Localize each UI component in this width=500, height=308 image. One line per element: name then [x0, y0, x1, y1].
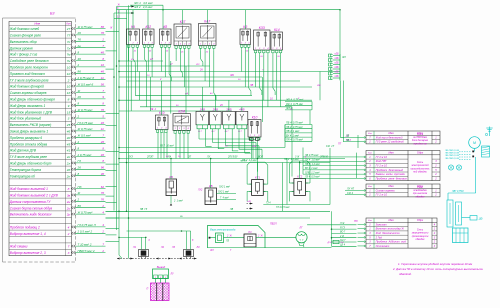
svg-text:Ж 0,75 мм²: Ж 0,75 мм²: [77, 108, 94, 112]
svg-text:2 0,75 мм²: 2 0,75 мм²: [77, 153, 93, 157]
svg-text:п2Б: п2Б: [334, 72, 339, 74]
svg-text:8б: 8б: [101, 25, 105, 29]
box top feeds: [132, 10, 134, 29]
svg-text:п2Б: п2Б: [334, 58, 339, 60]
svg-text:Сигнал горелки обогрев: Сигнал горелки обогрев: [10, 91, 47, 95]
svg-text:10: 10: [101, 63, 105, 67]
svg-text:4б: 4б: [101, 70, 105, 74]
svg-text:ПВ2Л: ПВ2Л: [270, 223, 277, 226]
row-bus link: [106, 234, 117, 236]
row-bus link: [106, 151, 120, 153]
distribution wires: [119, 60, 163, 62]
svg-text:ПБ 4 1,2 мм²: ПБ 4 1,2 мм²: [305, 163, 320, 166]
svg-text:ДГ4: ДГ4: [327, 241, 333, 244]
svg-text:Л4: Л4: [196, 246, 201, 249]
svg-text:Кон: Кон: [66, 23, 71, 26]
svg-text:7л: 7л: [67, 46, 71, 50]
svg-text:7б: 7б: [101, 108, 105, 112]
svg-text:Завесы жиды Аустайн: Завесы жиды Аустайн: [376, 172, 406, 176]
svg-text:2ПУЗ/ЗУ: 2ПУЗ/ЗУ: [227, 155, 238, 158]
bus B: [116, 7, 118, 231]
svg-text:п2Б: п2Б: [334, 67, 339, 69]
row-bus link: [106, 170, 117, 172]
svg-text:Л1: Л1: [132, 246, 137, 249]
svg-text:ж7: ж7: [149, 58, 154, 61]
trunk y211: [106, 210, 331, 212]
svg-text:обводкой.: обводкой.: [399, 272, 412, 276]
svg-text:8: 8: [68, 98, 70, 102]
device boundary box БЗ: [3, 18, 76, 262]
svg-text:1: 1: [272, 48, 273, 50]
svg-text:ГУЗ реле 12 свободной: ГУЗ реле 12 свободной: [376, 140, 405, 144]
svg-text:6д: 6д: [101, 185, 105, 189]
table T2: [366, 151, 440, 181]
svg-text:ЛГ: ЛГ: [298, 226, 303, 230]
svg-text:Л Ж: Л Ж: [339, 223, 345, 225]
svg-text:ГЗ 0,75 мм²: ГЗ 0,75 мм²: [78, 121, 95, 125]
T2 collector: [302, 148, 304, 175]
svg-text:2б: 2б: [77, 166, 82, 170]
svg-text:Ж: Ж: [77, 89, 81, 93]
svg-text:2в: 2в: [77, 44, 82, 48]
svg-text:7б: 7б: [78, 38, 82, 42]
svg-text:ДФ: ДФ: [478, 218, 483, 221]
trunk wire 2: [119, 162, 330, 164]
svg-text:Вывод: Вывод: [157, 265, 166, 269]
svg-text:Сигнал фонаря реле: Сигнал фонаря реле: [10, 34, 41, 38]
svg-text:Жид блок удаленного с ДУВ: Жид блок удаленного с ДУВ: [9, 110, 53, 114]
svg-text:ПВ2ГЗ мм² 2: ПВ2ГЗ мм² 2: [78, 249, 95, 253]
svg-text:2: 2: [77, 114, 80, 118]
svg-text:8б: 8б: [78, 70, 82, 74]
svg-text:2 Гвд: 2 Гвд: [375, 235, 383, 239]
cyan connector hatch: [482, 146, 490, 157]
svg-text:Жид блок удаленный: Жид блок удаленный: [9, 117, 42, 121]
left bus 2: [128, 5, 130, 252]
svg-text:ГУ 2 ж 10: ГУ 2 ж 10: [376, 164, 388, 168]
trunk y247: [208, 246, 332, 248]
connector stack: [329, 54, 333, 57]
svg-text:Я ГЗ: Я ГЗ: [339, 227, 345, 229]
svg-text:ЖЗ: ЖЗ: [209, 250, 214, 252]
table header: [9, 22, 72, 256]
svg-text:8: 8: [68, 187, 70, 191]
svg-text:3: 3: [68, 117, 70, 121]
svg-text:4б: 4б: [67, 168, 71, 172]
relay collect wires: [198, 129, 200, 139]
svg-text:2 0,5 мм² 2: 2 0,5 мм² 2: [77, 230, 93, 234]
svg-text:ГВ 7 10 мм²: ГВ 7 10 мм²: [160, 144, 174, 147]
cyan riser: [475, 157, 477, 193]
table rows: [9, 31, 72, 33]
svg-text:ЛУ 4 1,0 мм²: ЛУ 4 1,0 мм²: [304, 158, 320, 161]
svg-text:ГУ 2 ж 10: ГУ 2 ж 10: [376, 155, 388, 159]
svg-text:ПВ ГЗ: ПВ ГЗ: [140, 209, 148, 211]
svg-text:ГУ 3 жиле глубокого реле: ГУ 3 жиле глубокого реле: [10, 78, 49, 82]
svg-text:2 Ж: 2 Ж: [226, 236, 233, 238]
svg-text:ГЗ 0,75 мм² Л: ГЗ 0,75 мм² Л: [78, 223, 96, 227]
svg-text:Прожект жид безопасн: Прожект жид безопасн: [10, 72, 45, 76]
svg-text:2н: 2н: [66, 200, 71, 204]
svg-text:1: 1: [161, 42, 162, 44]
svg-text:2 1 мм²: 2 1 мм²: [173, 200, 183, 203]
row-bus link: [106, 240, 120, 242]
svg-text:Температура об: Температура об: [10, 174, 35, 178]
svg-text:Проблеск реле безопасн: Проблеск реле безопасн: [376, 176, 408, 180]
vert x358a: [357, 135, 359, 148]
svg-text:2л: 2л: [66, 162, 71, 166]
svg-text:ЛЗ 4 0,5 мм²: ЛЗ 4 0,5 мм²: [304, 176, 320, 179]
svg-text:НЕ 2: НЕ 2: [150, 108, 157, 111]
svg-text:ЖВ: ЖВ: [316, 85, 321, 87]
resistor ДГ4: [333, 240, 339, 243]
bus A: [113, 13, 115, 211]
svg-text:2РВ: 2РВ: [212, 107, 218, 111]
row-bus link: [106, 68, 115, 70]
svg-text:обводке: обводке: [416, 195, 426, 198]
trunk y218: [106, 217, 311, 219]
svg-text:10: 10: [67, 72, 71, 76]
cyan motor M: [469, 137, 481, 149]
svg-text:ЛВ: ЛВ: [229, 209, 234, 211]
svg-text:2о: 2о: [66, 206, 71, 210]
svg-text:Датчик сопротивления ГУ: Датчик сопротивления ГУ: [9, 200, 52, 204]
svg-text:7б: 7б: [101, 191, 105, 195]
svg-text:ЛВ: ЛВ: [249, 84, 254, 87]
svg-text:ЛВГ 0,75М: ЛВГ 0,75М: [451, 191, 463, 193]
svg-text:2р: 2р: [66, 213, 71, 217]
svg-text:Проблеск подающ 2: Проблеск подающ 2: [10, 226, 40, 230]
stack drop wires: [341, 81, 345, 138]
svg-text:К14: К14: [274, 28, 280, 32]
link T2: [356, 153, 358, 178]
wire d3d4: [257, 159, 259, 172]
svg-text:П: П: [147, 288, 149, 291]
svg-text:Ж: Ж: [77, 191, 81, 195]
svg-text:ЖЗ: ЖЗ: [341, 56, 346, 59]
svg-text:2 Ж: 2 Ж: [339, 236, 345, 238]
svg-text:ГЗ 4: ГЗ 4: [266, 201, 271, 204]
svg-text:ПЗ: ПЗ: [354, 219, 358, 223]
table T4: [366, 218, 437, 248]
wire drop x340: [339, 10, 341, 80]
bundle to T4: [331, 211, 333, 246]
svg-text:ВУ 4 1 мм²: ВУ 4 1 мм²: [305, 167, 318, 170]
svg-text:46: 46: [67, 130, 71, 134]
svg-text:3: 3: [68, 251, 70, 255]
svg-text:27: 27: [66, 27, 71, 31]
svg-text:Т 4 мм²: Т 4 мм²: [220, 196, 229, 199]
fuse Л2: [184, 250, 194, 257]
row-bus link: [106, 195, 115, 197]
svg-text:Жид боковых вызывной 2 с ДУВ: Жид боковых вызывной 2 с ДУВ: [9, 194, 59, 198]
svg-text:ЖЗ: ЖЗ: [195, 64, 200, 66]
vert x292: [291, 107, 293, 177]
svg-text:77: 77: [67, 34, 71, 38]
svg-text:4л: 4л: [101, 76, 105, 80]
svg-text:1: 1: [176, 43, 177, 45]
svg-text:Жид Дверь вызывать 1: Жид Дверь вызывать 1: [9, 104, 46, 108]
svg-text:Проблеск реле поворотн: Проблеск реле поворотн: [10, 66, 48, 70]
svg-text:Проблеск Айболит жид: Проблеск Айболит жид: [376, 240, 407, 244]
svg-text:ЛУ НТ: ЛУ НТ: [346, 188, 355, 191]
svg-text:2б: 2б: [77, 95, 82, 99]
row-bus link: [106, 112, 120, 114]
svg-text:1: 1: [128, 42, 129, 44]
cyan antenna: [489, 127, 491, 137]
svg-text:Проблеск стекла обдува: Проблеск стекла обдува: [10, 142, 48, 146]
svg-text:7н: 7н: [67, 59, 71, 63]
svg-text:2: 2: [77, 140, 80, 144]
svg-text:К2М: К2М: [178, 109, 185, 113]
svg-text:Проблеск разгрузки 6: Проблеск разгрузки 6: [10, 136, 43, 140]
svg-text:ЛУ: ЛУ: [206, 155, 211, 158]
svg-text:25: 25: [66, 123, 71, 127]
svg-text:41: 41: [67, 149, 71, 153]
bus top stubs: [117, 6, 135, 8]
svg-text:7к: 7к: [67, 40, 71, 44]
svg-text:Ж 0,75 мм²: Ж 0,75 мм²: [77, 210, 94, 214]
jog1: [119, 255, 122, 259]
svg-text:Зажиг Дверь вызывать 1: Зажиг Дверь вызывать 1: [10, 130, 49, 134]
svg-text:Отключат: Отключат: [376, 244, 390, 248]
svg-text:Сигнал борта скольж обдув: Сигнал борта скольж обдув: [10, 206, 53, 210]
svg-text:Т 10 мм² 2: Т 10 мм² 2: [78, 242, 92, 246]
deep drop wires: [130, 61, 132, 111]
svg-text:2: 2: [101, 204, 104, 208]
svg-text:Жид боковых огней: Жид боковых огней: [9, 27, 40, 31]
svg-text:2б: 2б: [199, 69, 203, 72]
svg-text:ЛУ2: ЛУ2: [197, 190, 203, 192]
svg-text:ОУ2 1 мм²: ОУ2 1 мм²: [218, 190, 229, 193]
svg-text:2 Ж: 2 Ж: [257, 236, 264, 238]
svg-text:1: 1: [241, 42, 242, 44]
row-bus link: [106, 186, 117, 188]
svg-text:2б: 2б: [100, 140, 105, 144]
svg-text:ВО Г: ВО Г: [340, 232, 346, 234]
svg-text:Обрк: Обрк: [417, 218, 424, 222]
svg-text:К10: К10: [252, 115, 258, 119]
svg-text:2. Датчик 50 в отметку 10 см.: 2. Датчик 50 в отметку 10 см. сеть литер…: [392, 267, 483, 271]
svg-text:Жид боковых фонарей: Жид боковых фонарей: [9, 85, 44, 89]
row-bus link: [106, 217, 120, 219]
svg-text:2: 2: [101, 230, 104, 234]
svg-text:Фара электропривода: Фара электропривода: [210, 229, 236, 232]
svg-text:Ж 0,5 мм² б: Ж 0,5 мм² б: [77, 82, 94, 86]
svg-text:ЛБ: ЛБ: [345, 135, 350, 138]
svg-text:2Б: 2Б: [179, 216, 183, 218]
svg-text:К82: К82: [145, 25, 151, 29]
svg-text:10: 10: [67, 85, 71, 89]
svg-text:2: 2: [101, 249, 104, 253]
svg-text:Имя: Имя: [388, 151, 394, 155]
svg-text:Вибропр включение 2, 3: Вибропр включение 2, 3: [10, 251, 46, 255]
svg-text:8б: 8б: [78, 204, 82, 208]
svg-text:Температура борта: Температура борта: [10, 168, 41, 172]
svg-text:ОЛБ 1,2 мм²: ОЛБ 1,2 мм²: [305, 171, 320, 174]
svg-text:ж4: ж4: [184, 93, 189, 96]
svg-text:2б: 2б: [77, 31, 82, 35]
svg-text:ПЗ: ПЗ: [78, 185, 82, 189]
svg-text:Включат жплогодар Ж: Включат жплогодар Ж: [376, 227, 405, 231]
wire y152 link: [119, 151, 250, 153]
svg-text:Зажигат: Зажигат: [376, 222, 388, 226]
svg-text:2: 2: [67, 78, 70, 82]
row-bus link: [106, 163, 120, 165]
svg-text:ЛЗ: ЛЗ: [225, 241, 230, 243]
svg-text:обводке: обводке: [416, 238, 426, 241]
wire ЖС1: [130, 4, 163, 6]
svg-text:К8: К8: [163, 25, 167, 29]
svg-text:1: 1: [157, 127, 158, 129]
svg-text:ЖБ: ЖБ: [229, 74, 234, 77]
row-bus link: [106, 228, 120, 230]
vert x262: [262, 77, 264, 122]
svg-text:Включатель обор: Включатель обор: [10, 40, 37, 44]
svg-text:4б: 4б: [101, 153, 105, 157]
svg-text:4: 4: [68, 226, 70, 230]
connector п2В marks: [247, 203, 253, 205]
svg-text:Л3: Л3: [171, 246, 176, 249]
svg-text:9: 9: [68, 104, 70, 108]
row-bus link: [106, 31, 120, 33]
left bus 1: [126, 10, 128, 212]
vert x287: [286, 159, 288, 205]
bus C: [118, 10, 120, 255]
svg-text:Датчик уровня: Датчик уровня: [9, 46, 33, 50]
svg-text:ЛВ: ЛВ: [345, 139, 350, 142]
svg-text:40: 40: [67, 136, 71, 140]
svg-text:5б: 5б: [101, 82, 105, 86]
svg-text:Жид боковых вызывной 1: Жид боковых вызывной 1: [9, 187, 48, 191]
svg-text:45: 45: [67, 142, 71, 146]
svg-text:Имя: Имя: [388, 218, 394, 222]
svg-text:п2Б: п2Б: [334, 54, 339, 56]
svg-text:3б: 3б: [101, 172, 105, 176]
svg-text:Жид кор в безопасной: Жид кор в безопасной: [375, 135, 403, 139]
svg-text:п2Б: п2Б: [334, 76, 339, 78]
svg-text:Жид ПЗТ: Жид ПЗТ: [375, 159, 387, 163]
left bus end: [128, 252, 130, 259]
svg-text:2ПЗП: 2ПЗП: [146, 155, 154, 158]
table row wires: [71, 27, 73, 29]
cyan bottom block: [453, 228, 469, 243]
svg-text:Л2: Л2: [160, 246, 165, 249]
row-bus link: [106, 210, 127, 212]
svg-text:М: М: [473, 141, 476, 145]
svg-text:Жид Дверь обгонного борт: Жид Дверь обгонного борт: [9, 162, 52, 166]
svg-text:СЖ 1Т: СЖ 1Т: [326, 145, 335, 148]
svg-text:4л: 4л: [101, 127, 105, 131]
svg-text:1: 1: [250, 135, 251, 137]
svg-text:п2В: п2В: [247, 201, 251, 203]
wires к10 down: [157, 132, 159, 159]
svg-text:СЖ 4: СЖ 4: [347, 192, 354, 195]
junction dots: [118, 60, 120, 62]
svg-text:Включатель РКСВ (охранн): Включатель РКСВ (охранн): [10, 123, 52, 127]
svg-text:п2Б: п2Б: [334, 63, 339, 65]
svg-text:ПБ 2 1,2 мм²: ПБ 2 1,2 мм²: [242, 159, 257, 162]
dash rail: [117, 258, 197, 260]
table T1: [366, 131, 440, 144]
wire y147 link: [119, 147, 285, 149]
svg-text:10: 10: [67, 66, 71, 70]
svg-text:2: 2: [77, 198, 80, 202]
svg-text:15: 15: [67, 110, 71, 114]
svg-text:Жид безопасности: Жид безопасности: [375, 231, 401, 235]
svg-text:ЖЗ 2 4,0 мм²: ЖЗ 2 4,0 мм²: [133, 5, 153, 9]
svg-text:2П: 2П: [187, 155, 191, 158]
svg-text:9б: 9б: [101, 166, 105, 170]
svg-text:ГУ 2 ж 10: ГУ 2 ж 10: [376, 193, 388, 197]
svg-text:Жид Дверь обгонного фонаря: Жид Дверь обгонного фонаря: [9, 98, 55, 102]
svg-text:1: 1: [175, 128, 176, 130]
svg-text:2б: 2б: [219, 104, 223, 107]
svg-text:Обрк: Обрк: [417, 151, 424, 155]
svg-text:Имя: Имя: [34, 22, 40, 26]
wires К10б down: [251, 140, 253, 159]
svg-text:1б: 1б: [67, 91, 71, 95]
svg-text:ВОЛ: ВОЛ: [258, 155, 263, 158]
svg-text:Ж 0,75 мм²: Ж 0,75 мм²: [77, 127, 94, 131]
link x285: [284, 125, 286, 148]
svg-text:ЛУЗ: ЛУЗ: [127, 155, 133, 158]
headlamp drive box: [208, 226, 266, 249]
svg-text:7: 7: [68, 245, 70, 249]
wire ЖЗ2: [117, 9, 341, 11]
svg-text:1: 1: [200, 43, 201, 45]
fuse Л1: [139, 250, 149, 257]
svg-text:4б: 4б: [101, 121, 105, 125]
svg-text:Жид Датчик ДУВ: Жид Датчик ДУВ: [9, 149, 37, 153]
svg-text:1. Укрепление жгутов удобной ж: 1. Укрепление жгутов удобной жгутом пере…: [398, 262, 472, 266]
fuse feed 1: [140, 237, 142, 249]
svg-text:1: 1: [255, 48, 256, 50]
svg-text:2: 2: [67, 232, 70, 236]
row-bus link: [106, 202, 117, 204]
svg-text:Включатель жидк безопасн: Включатель жидк безопасн: [10, 213, 52, 217]
row-bus link: [106, 50, 117, 52]
svg-text:2: 2: [101, 38, 104, 42]
svg-text:Жид / фонар 2 сиг: Жид / фонар 2 сиг: [9, 53, 38, 57]
svg-text:1: 1: [144, 42, 145, 44]
svg-text:ГЗ 4 0,5 мм²: ГЗ 4 0,5 мм²: [276, 206, 290, 209]
vert x282: [282, 163, 284, 212]
vert x330: [329, 148, 331, 205]
svg-text:ЛУ: ЛУ: [170, 273, 175, 276]
svg-text:Сигнал горелки: Сигнал горелки: [376, 188, 396, 192]
svg-text:Ж 0,75 мм²: Ж 0,75 мм²: [77, 25, 94, 29]
vert x310: [309, 110, 311, 125]
labeled trunk wire: [119, 158, 345, 160]
cyan lower assembly: [447, 200, 453, 227]
svg-text:ПБ 2 1,2 мм²: ПБ 2 1,2 мм²: [284, 158, 299, 161]
wire КВ: [210, 159, 212, 189]
svg-text:4б: 4б: [101, 50, 105, 54]
svg-text:Имя: Имя: [388, 131, 394, 135]
svg-text:4б: 4б: [78, 57, 82, 61]
svg-text:Свободное реле безопасн: Свободное реле безопасн: [10, 59, 49, 63]
svg-text:2п: 2п: [66, 174, 71, 178]
svg-text:Ж 0,5 мм²: Ж 0,5 мм²: [77, 134, 92, 138]
svg-text:КБ: КБ: [170, 175, 174, 179]
svg-text:ГУ 8 жиле глубокая реле: ГУ 8 жиле глубокая реле: [10, 155, 47, 159]
fuse feed 2: [185, 231, 187, 250]
table T3: [366, 184, 440, 197]
svg-text:Проблеск безопасный: Проблеск безопасный: [376, 168, 404, 172]
svg-text:ной обводки: ной обводки: [413, 171, 427, 174]
svg-text:Жид смазки: Жид смазки: [9, 245, 28, 249]
